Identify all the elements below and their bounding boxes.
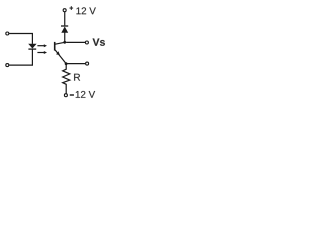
wire: emitter junction to right terminal [66,63,85,65]
Vs output terminal [85,41,88,44]
Q1 collector lead [55,42,65,44]
phototransistor Q1 base bar [54,42,56,51]
label +12V: text [76,7,95,14]
diode D2 cathode bar [61,25,68,27]
light arrow (upper) [37,44,47,47]
diode D2 triangle (pointing up) [61,27,68,33]
resistor R zigzag [63,64,70,94]
label -12V: text [76,91,95,98]
label +12V: plus sign [70,6,74,10]
wire: top-left terminal to LED anode [9,34,32,44]
Q1 emitter arrowhead [56,51,60,55]
wire: collector junction up to diode [64,33,66,43]
-12V terminal [64,94,67,97]
LED D1 cathode bar [28,48,36,50]
LED D1 triangle (pointing down) [28,44,36,49]
light arrow (lower) [37,51,47,54]
label -12V: minus sign [70,94,74,95]
wire: collector junction to Vs terminal [66,41,85,43]
input terminal (bottom-left) [6,64,9,67]
node: collector junction [63,41,66,44]
input terminal (top-left) [6,32,9,35]
Q1 emitter lead [55,50,66,64]
+12V terminal [63,9,66,12]
wire: diode to +12V terminal [64,12,66,26]
label Vs [93,38,105,45]
wire: LED cathode to bottom-left terminal [9,49,32,65]
node: emitter junction [65,62,68,65]
label R [74,74,80,81]
output terminal (emitter side) [86,62,89,65]
